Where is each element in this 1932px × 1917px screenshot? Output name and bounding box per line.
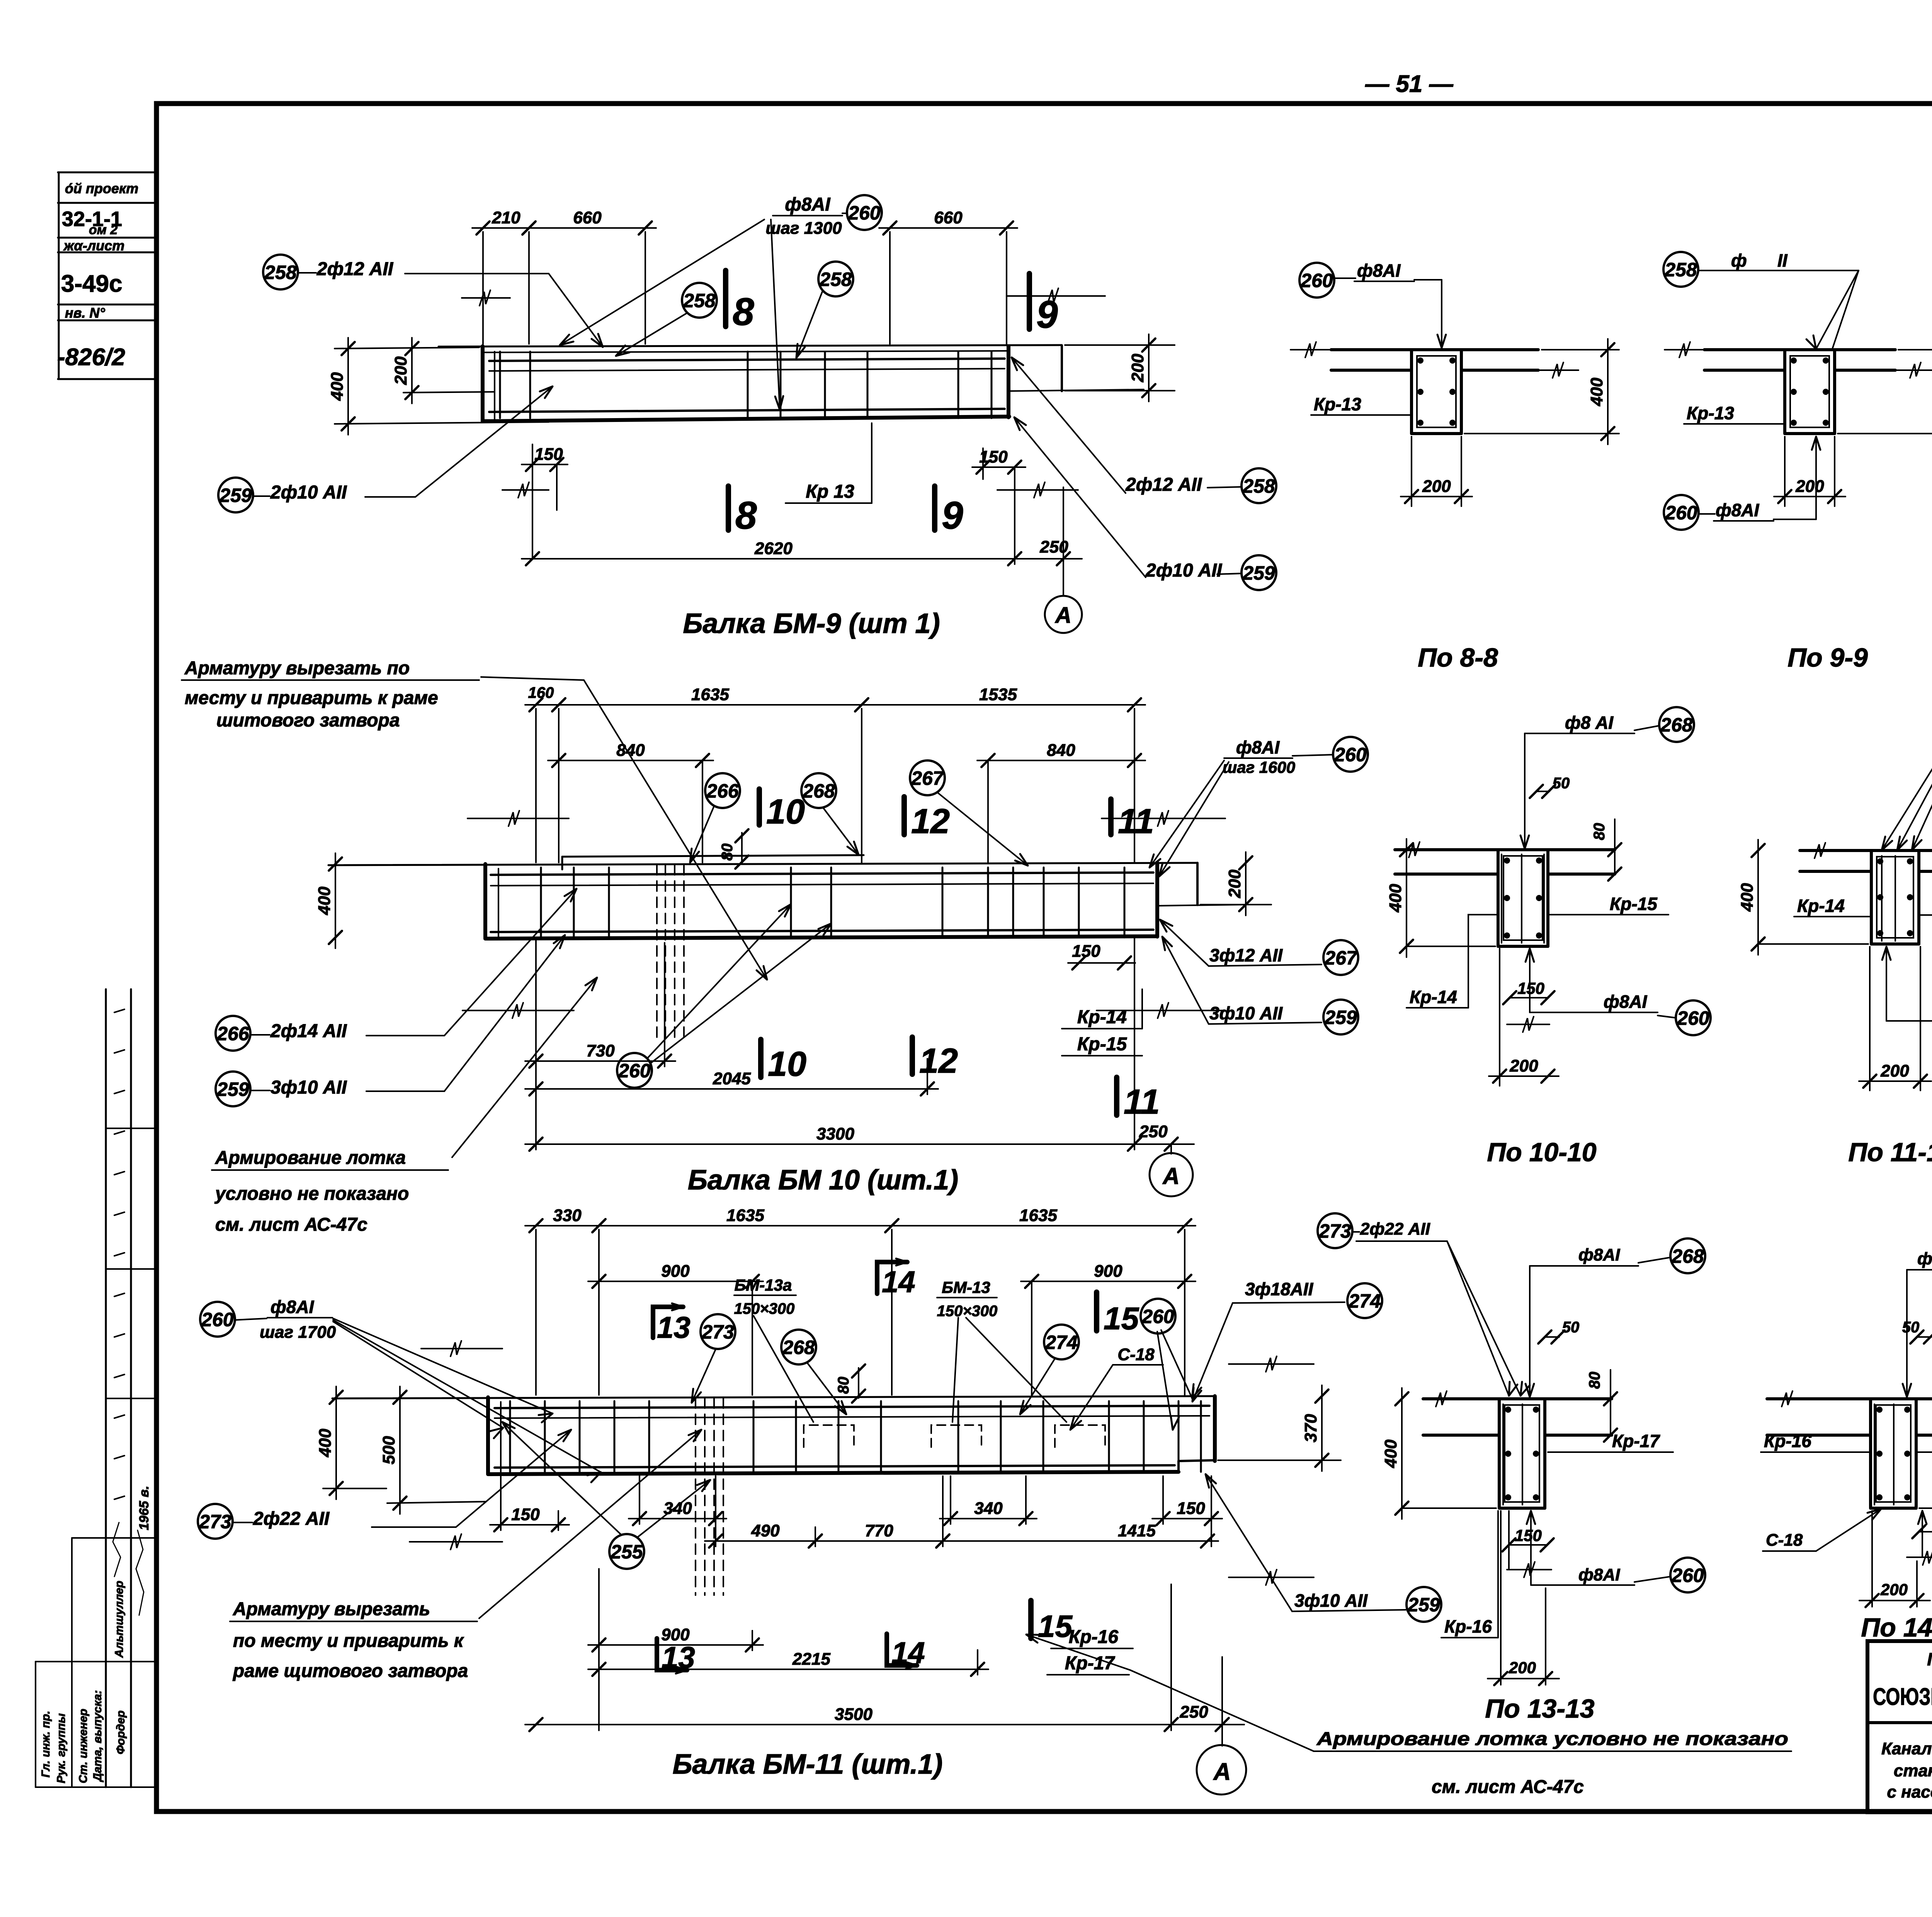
beam BM-10 circle 260 mid — [617, 904, 831, 1088]
beam BM-10 circle 267 — [910, 760, 1028, 866]
svg-text:660: 660 — [934, 208, 963, 227]
svg-text:ф8АI: ф8АI — [1578, 1565, 1620, 1584]
svg-text:274: 274 — [1045, 1332, 1077, 1353]
svg-text:259: 259 — [1242, 562, 1275, 584]
svg-text:А: А — [1054, 603, 1071, 628]
beam BM-10 note armirovanie lotka — [212, 978, 597, 1235]
beam BM-10 label 2f14 AII (266) left — [216, 889, 577, 1051]
beam BM-11 circle 268 — [781, 1330, 846, 1414]
svg-text:268: 268 — [1660, 714, 1693, 736]
section Po 10-10 dim 50 — [1530, 775, 1570, 798]
svg-text:210: 210 — [492, 208, 520, 227]
beam BM-9 section mark 9 bottom — [935, 486, 963, 537]
beam BM-10 section mark 10 bottom — [761, 1039, 806, 1084]
beam BM-9 label 2f10 AII (259) right — [1014, 417, 1276, 590]
svg-text:3300: 3300 — [816, 1124, 854, 1143]
section Po 8-8 label Kr-13 — [1311, 394, 1410, 415]
svg-text:200: 200 — [1225, 869, 1244, 898]
svg-text:400: 400 — [1587, 378, 1606, 407]
title block org names — [1873, 1649, 1932, 1724]
svg-text:Ст. инженер: Ст. инженер — [77, 1709, 90, 1783]
svg-text:200: 200 — [1128, 354, 1147, 383]
section Po 10-10 dim 200 — [1489, 949, 1559, 1086]
svg-text:Армирование лотка: Армирование лотка — [215, 1148, 406, 1168]
beam BM-10 label 3f10 AII (259) — [1162, 937, 1358, 1034]
svg-text:50: 50 — [1553, 775, 1570, 792]
svg-text:200: 200 — [1795, 477, 1824, 496]
svg-text:200: 200 — [1880, 1580, 1908, 1599]
section Po 14-14 label Kr-17 — [1916, 1431, 1932, 1452]
section Po 11-11 label Kr-14 — [1794, 896, 1871, 917]
svg-text:274: 274 — [1348, 1290, 1381, 1312]
beam BM-10 section mark 11 top — [1111, 799, 1154, 841]
svg-text:А: А — [1162, 1163, 1179, 1189]
section Po 11-11 body — [1800, 843, 1932, 944]
svg-text:11: 11 — [1124, 1083, 1160, 1121]
svg-text:2ф22 АII: 2ф22 АII — [1360, 1220, 1430, 1238]
section Po 13-13 dim 400 — [1381, 1388, 1496, 1519]
beam BM-10 dim 150 — [1068, 942, 1135, 970]
svg-text:По 9-9: По 9-9 — [1787, 643, 1868, 672]
svg-text:-826/2: -826/2 — [57, 344, 125, 371]
svg-text:400: 400 — [1381, 1439, 1400, 1468]
svg-text:370: 370 — [1301, 1414, 1320, 1442]
svg-text:ф8 АI: ф8 АI — [1565, 713, 1614, 733]
beam BM-9 top dimensions 210 660 660 — [472, 208, 1017, 344]
beam BM-11 label 2f22 AII (273) left — [198, 1430, 571, 1539]
beam BM-11 axis A circle — [1197, 1745, 1246, 1795]
section Po 14-14 label Kr-16 — [1761, 1431, 1871, 1452]
svg-text:400: 400 — [1386, 884, 1405, 913]
svg-text:900: 900 — [661, 1262, 690, 1281]
svg-text:ф8АI: ф8АI — [270, 1297, 315, 1317]
section Po 13-13 title — [1485, 1694, 1594, 1723]
svg-text:268: 268 — [802, 780, 835, 802]
svg-text:150: 150 — [1072, 942, 1100, 961]
svg-text:13: 13 — [657, 1310, 690, 1344]
svg-text:259: 259 — [219, 485, 252, 506]
svg-text:с насосами 2½НФ или 4НФ: с насосами 2½НФ или 4НФ — [1887, 1783, 1932, 1801]
svg-text:о́й проект: о́й проект — [65, 180, 138, 196]
svg-text:БМ-13а: БМ-13а — [735, 1276, 792, 1294]
beam BM-10 label Kr-14 Kr-15 — [1062, 989, 1142, 1056]
page number -51- — [1365, 71, 1453, 97]
beam BM-11 section mark 14 bottom — [887, 1634, 925, 1670]
beam BM-11 mid dims 150 340 490 770 340 1415 150 — [490, 1476, 1222, 1548]
svg-text:150: 150 — [1515, 1526, 1542, 1544]
beam BM-11 circle 273 — [692, 1314, 735, 1403]
svg-text:Кр-15: Кр-15 — [1610, 894, 1658, 914]
svg-text:660: 660 — [573, 208, 602, 227]
section Po 13-13 dim 200 — [1488, 1511, 1559, 1685]
beam BM-11 label Kr-16 Kr-17 — [1047, 1627, 1133, 1675]
svg-text:340: 340 — [974, 1499, 1003, 1518]
svg-text:1965 в.: 1965 в. — [137, 1486, 151, 1530]
title block grid — [1867, 1641, 1932, 1812]
svg-text:260: 260 — [1677, 1007, 1709, 1029]
svg-text:По 10-10: По 10-10 — [1487, 1138, 1596, 1167]
beam BM-11 section mark 15 bottom — [1031, 1601, 1073, 1643]
beam BM-11 section mark 15 top — [1097, 1292, 1139, 1336]
beam BM-11 label 3f18AII (274) — [1192, 1279, 1382, 1402]
svg-text:С-18: С-18 — [1766, 1531, 1803, 1550]
beam BM-10 circle 268 — [801, 773, 859, 855]
svg-text:10: 10 — [768, 1045, 806, 1084]
svg-text:150×300: 150×300 — [937, 1303, 998, 1320]
beam BM-10 stirrups — [541, 867, 1124, 937]
beam BM-11 label BM-13 — [937, 1278, 1066, 1422]
svg-text:2ф10 АII: 2ф10 АII — [1145, 560, 1223, 581]
svg-text:80: 80 — [835, 1377, 852, 1394]
svg-text:2045: 2045 — [713, 1069, 751, 1088]
svg-text:ф8АI: ф8АI — [1917, 1249, 1932, 1268]
beam BM-11 top dimensions — [525, 1206, 1196, 1395]
svg-text:А: А — [1213, 1759, 1231, 1785]
svg-text:900: 900 — [1094, 1262, 1122, 1281]
svg-text:Дата, выпуска:: Дата, выпуска: — [91, 1690, 104, 1783]
svg-text:267: 267 — [911, 767, 944, 789]
beam BM-9 section mark 9 top — [1029, 274, 1058, 336]
svg-text:840: 840 — [1047, 741, 1075, 760]
svg-text:ф8АI: ф8АI — [1357, 260, 1401, 281]
section Po 13-13 dim 50 — [1538, 1319, 1579, 1344]
section Po 14-14 label f8AI (268) — [1903, 1241, 1932, 1397]
beam BM-11 label S-18 — [1070, 1345, 1163, 1430]
svg-text:15: 15 — [1038, 1609, 1073, 1643]
svg-text:730: 730 — [586, 1041, 615, 1060]
svg-text:По 14-14: По 14-14 — [1861, 1613, 1932, 1642]
svg-text:Балка БМ-9 (шт 1): Балка БМ-9 (шт 1) — [683, 608, 940, 639]
beam BM-10 section mark 12 top — [904, 797, 950, 841]
beam BM-11 section mark 13 bottom — [657, 1638, 695, 1674]
section Po 10-10 dim 80 — [1591, 819, 1621, 881]
section Po 14-14 dim 200 — [1859, 1511, 1930, 1607]
svg-text:3ф18АII: 3ф18АII — [1245, 1279, 1313, 1299]
beam BM-11 dashed cutout — [696, 1398, 723, 1595]
svg-text:Фордер: Фордер — [114, 1710, 127, 1754]
svg-text:1535: 1535 — [979, 685, 1017, 704]
beam BM-10 bottom dims 730 2045 3300 250 — [525, 937, 1194, 1154]
section Po 11-11 label Kr-15 — [1919, 894, 1932, 915]
section Po 10-10 body — [1395, 842, 1615, 946]
svg-text:273: 273 — [199, 1511, 231, 1533]
svg-text:см. лист АС-47с: см. лист АС-47с — [215, 1214, 367, 1235]
svg-text:260: 260 — [1300, 270, 1333, 291]
section Po 11-11 dim 400 — [1738, 840, 1868, 955]
svg-text:Кр-16: Кр-16 — [1764, 1431, 1811, 1451]
beam BM-11 circle 274 — [1020, 1325, 1079, 1414]
svg-text:3500: 3500 — [835, 1705, 872, 1724]
beam BM-11 label f8AI step 1700 (260) left — [200, 1297, 601, 1482]
beam BM-10 circle 266 — [690, 773, 740, 862]
svg-text:Балка БМ 10 (шт.1): Балка БМ 10 (шт.1) — [688, 1165, 958, 1196]
beam BM-9 label Kr 13 — [786, 423, 872, 503]
svg-text:месту и приварить к раме: месту и приварить к раме — [185, 688, 438, 708]
svg-text:400: 400 — [316, 1429, 335, 1458]
svg-text:260: 260 — [201, 1309, 234, 1330]
beam BM-9 stirrups — [500, 352, 992, 418]
svg-text:260: 260 — [1334, 744, 1367, 765]
svg-text:1635: 1635 — [691, 685, 729, 704]
svg-text:200: 200 — [1880, 1061, 1909, 1080]
svg-text:1415: 1415 — [1118, 1521, 1156, 1540]
svg-text:2ф12 АII: 2ф12 АII — [316, 259, 394, 279]
beam BM-9 label 2f12 AII (258) right — [1012, 357, 1276, 503]
svg-text:2ф22 АII: 2ф22 АII — [253, 1509, 330, 1529]
svg-text:260: 260 — [1671, 1565, 1704, 1586]
svg-text:770: 770 — [865, 1521, 893, 1540]
svg-text:150: 150 — [1177, 1499, 1205, 1518]
svg-text:258: 258 — [264, 262, 297, 283]
beam BM-10 right dim 200 — [1097, 811, 1271, 1018]
svg-text:14: 14 — [882, 1265, 915, 1299]
svg-text:9: 9 — [942, 494, 963, 537]
svg-text:1635: 1635 — [726, 1206, 764, 1225]
svg-text:260: 260 — [1141, 1306, 1174, 1327]
section Po 11-11 title — [1848, 1138, 1932, 1167]
section Po 13-13 label Kr-17 — [1548, 1431, 1673, 1452]
svg-text:— 51 —: — 51 — — [1365, 71, 1453, 97]
beam BM-11 title — [673, 1749, 943, 1780]
beam BM-10 section mark 11 bottom — [1117, 1077, 1160, 1121]
section Po 13-13 dim 150 — [1502, 1511, 1554, 1577]
beam BM-11 body — [332, 1396, 1215, 1474]
svg-text:268: 268 — [782, 1337, 815, 1358]
svg-text:Кр-16: Кр-16 — [1444, 1616, 1492, 1636]
beam BM-11 circle 255 — [502, 1422, 710, 1569]
section Po 8-8 label f8AI (260) — [1299, 260, 1446, 348]
beam BM-10 dim 80 — [719, 829, 748, 869]
beam BM-9 left dims 400 200 — [328, 290, 549, 435]
svg-text:400: 400 — [315, 886, 334, 915]
section Po 10-10 label Kr-15 — [1549, 894, 1668, 915]
svg-text:ом 2: ом 2 — [89, 223, 117, 237]
svg-text:200: 200 — [1509, 1056, 1538, 1075]
beam BM-11 section mark 14 top — [877, 1259, 915, 1299]
beam BM-11 stirrups — [510, 1401, 1201, 1472]
svg-text:шаг 1600: шаг 1600 — [1223, 758, 1295, 776]
svg-text:По 13-13: По 13-13 — [1485, 1694, 1594, 1723]
svg-text:3ф12 АII: 3ф12 АII — [1209, 945, 1283, 965]
beam BM-10 axis A circle — [1150, 1153, 1193, 1196]
svg-text:15: 15 — [1104, 1301, 1139, 1336]
svg-text:по месту и приварить к: по месту и приварить к — [233, 1631, 464, 1651]
beam BM-10 body — [328, 855, 1246, 939]
svg-text:8: 8 — [733, 290, 754, 333]
section Po 14-14 label S-18 — [1763, 1509, 1881, 1551]
svg-text:см. лист АС-47с: см. лист АС-47с — [1432, 1777, 1584, 1797]
beam BM-11 dim 3500 250 — [525, 1584, 1244, 1746]
svg-text:ф8АI: ф8АI — [1236, 737, 1280, 757]
beam BM-10 section mark 12 bottom — [912, 1037, 958, 1080]
beam BM-9 circle 258 left-mid — [796, 262, 853, 358]
beam BM-11 label 3f10 AII (259) right — [1206, 1474, 1441, 1622]
beam BM-9 title — [683, 608, 940, 639]
svg-text:Кр-16: Кр-16 — [1069, 1627, 1119, 1647]
section Po 9-9 dim 400 — [1838, 339, 1932, 444]
svg-text:Арматуру вырезать по: Арматуру вырезать по — [184, 658, 410, 679]
svg-text:255: 255 — [610, 1541, 643, 1563]
svg-text:2ф12 АII: 2ф12 АII — [1125, 475, 1202, 495]
svg-text:12: 12 — [919, 1042, 958, 1080]
section Po 10-10 title — [1487, 1138, 1596, 1167]
svg-text:шаг 1700: шаг 1700 — [260, 1323, 336, 1342]
svg-text:Кр-13: Кр-13 — [1314, 394, 1361, 414]
svg-text:150: 150 — [1517, 979, 1544, 997]
svg-text:260: 260 — [1665, 502, 1697, 524]
svg-text:80: 80 — [719, 844, 736, 861]
section Po 14-14 dim 50 — [1902, 1319, 1932, 1344]
section Po 9-9 dim 200 — [1774, 437, 1845, 506]
section Po 8-8 dim 400 — [1464, 339, 1619, 444]
svg-text:50: 50 — [1902, 1319, 1920, 1336]
svg-text:Кр 13: Кр 13 — [806, 481, 854, 502]
svg-text:II: II — [1777, 250, 1788, 270]
svg-text:266: 266 — [216, 1023, 250, 1044]
svg-text:3ф10 АII: 3ф10 АII — [1294, 1590, 1368, 1611]
beam BM-9 label 2f10 AII (259) left — [218, 386, 553, 512]
beam BM-11 section mark 13 top — [653, 1303, 690, 1344]
section Po 14-14 body — [1767, 1391, 1932, 1508]
beam BM-11 right dim 370 — [1218, 1356, 1341, 1585]
beam BM-11 left dims 400 500 — [316, 1341, 502, 1550]
svg-text:150: 150 — [511, 1505, 540, 1524]
section Po 10-10 label Kr-14 — [1406, 915, 1496, 1008]
section Po 13-13 label f8AI (260) — [1527, 1511, 1705, 1592]
section Po 13-13 dim 80 — [1586, 1370, 1617, 1442]
svg-text:ф8АI: ф8АI — [1578, 1245, 1620, 1264]
beam BM-10 label 3f10 AII (259) left — [216, 935, 565, 1106]
svg-text:250: 250 — [1139, 1122, 1168, 1141]
section Po 10-10 label f8AI (260) — [1526, 949, 1711, 1035]
section Po 8-8 dim 200 — [1401, 437, 1472, 506]
bottom-left signature stamp — [36, 989, 156, 1787]
beam BM-10 section mark 10 top — [759, 789, 805, 831]
svg-text:258: 258 — [683, 290, 716, 311]
svg-text:ф8АI: ф8АI — [1604, 992, 1648, 1012]
svg-text:260: 260 — [618, 1060, 651, 1082]
svg-text:Кр-14: Кр-14 — [1797, 896, 1845, 916]
section Po 14-14 label f8AI (260) — [1918, 1511, 1932, 1565]
svg-text:БМ-13: БМ-13 — [942, 1278, 990, 1296]
svg-text:3ф10 АII: 3ф10 АII — [1209, 1003, 1283, 1023]
section Po 9-9 label Kr-13 — [1684, 403, 1785, 424]
svg-text:По 11-11: По 11-11 — [1848, 1138, 1932, 1167]
section Po 10-10 label f8AI (268) — [1520, 707, 1694, 849]
svg-text:Балка БМ-11 (шт.1): Балка БМ-11 (шт.1) — [673, 1749, 943, 1780]
svg-text:2ф10 АII: 2ф10 АII — [270, 482, 347, 503]
svg-text:Кр-14: Кр-14 — [1077, 1007, 1127, 1027]
beam BM-9 label 2f12 AII (258) left — [263, 255, 603, 347]
svg-text:258: 258 — [1664, 259, 1697, 281]
section Po 14-14 title — [1861, 1613, 1932, 1642]
beam BM-10 label 3f12 AII (267) — [1160, 920, 1358, 975]
svg-text:3-49с: 3-49с — [61, 270, 122, 297]
beam BM-10 title — [688, 1165, 958, 1196]
svg-text:500: 500 — [379, 1436, 398, 1465]
beam BM-10 dashed cutout — [657, 865, 684, 1043]
svg-text:273: 273 — [701, 1321, 734, 1343]
svg-text:258: 258 — [819, 269, 852, 290]
section Po 13-13 label Kr-16 — [1441, 1511, 1498, 1638]
svg-text:3ф10 АII: 3ф10 АII — [270, 1077, 347, 1098]
beam BM-11 circle 260 right — [1141, 1299, 1201, 1430]
svg-text:250: 250 — [1179, 1703, 1208, 1721]
section Po 9-9 title — [1787, 643, 1868, 672]
svg-text:268: 268 — [1671, 1245, 1704, 1267]
svg-text:12: 12 — [911, 802, 950, 841]
section Po 9-9 body — [1665, 342, 1932, 434]
svg-text:259: 259 — [216, 1078, 249, 1100]
svg-text:Арматуру вырезать: Арматуру вырезать — [233, 1599, 430, 1619]
svg-text:150×300: 150×300 — [734, 1300, 795, 1317]
top-left stamp boxes — [57, 172, 156, 379]
svg-text:Госстрой СССР: Госстрой СССР — [1927, 1649, 1932, 1669]
svg-text:490: 490 — [751, 1521, 780, 1540]
section Po 10-10 dim 400 — [1386, 839, 1495, 957]
beam BM-9 axis A circle — [1045, 596, 1082, 633]
svg-text:259: 259 — [1407, 1594, 1440, 1616]
beam BM-9 circle 258 center — [616, 283, 717, 356]
svg-text:ф: ф — [1731, 250, 1747, 270]
svg-text:Рук. группы: Рук. группы — [55, 1713, 68, 1783]
beam BM-11 label BM-13a — [734, 1276, 813, 1422]
svg-text:2ф14 АII: 2ф14 АII — [270, 1021, 347, 1041]
svg-text:50: 50 — [1562, 1319, 1580, 1336]
beam BM-9 section mark 8 bottom — [728, 486, 757, 537]
svg-text:шитового затвора: шитового затвора — [216, 710, 400, 731]
beam BM-11 dims 900 2215 — [588, 1569, 988, 1730]
svg-text:266: 266 — [706, 780, 739, 802]
svg-text:340: 340 — [663, 1499, 692, 1518]
section Po 14-14 dim 400 — [1919, 1388, 1932, 1519]
beam BM-9 section mark 8 top — [726, 270, 754, 333]
beam BM-9 dim 150 left — [502, 444, 568, 559]
section Po 11-11 label f8AI (260) — [1882, 947, 1932, 1033]
svg-text:станция на 2 агрегата: станция на 2 агрегата — [1894, 1761, 1932, 1780]
svg-text:14: 14 — [891, 1636, 925, 1670]
svg-text:Альтшуллер: Альтшуллер — [113, 1581, 126, 1658]
svg-text:Кр-14: Кр-14 — [1410, 987, 1457, 1007]
beam BM-9 body — [439, 345, 1144, 421]
section Po 9-9 label (258) — [1663, 250, 1859, 349]
svg-text:жα-лист: жα-лист — [63, 238, 124, 253]
svg-text:150: 150 — [534, 445, 563, 464]
section Po 8-8 body — [1291, 342, 1578, 434]
beam BM-11 note armirovanie lotka bottom — [1026, 1635, 1791, 1797]
beam BM-10 label f8AI step 1600 (260) — [1150, 737, 1368, 876]
svg-text:200: 200 — [1422, 477, 1451, 496]
svg-text:10: 10 — [766, 793, 805, 831]
svg-text:раме щитового затвора: раме щитового затвора — [232, 1661, 468, 1681]
beam BM-10 top dimensions — [525, 684, 1145, 862]
svg-text:шаг 1300: шаг 1300 — [765, 219, 842, 238]
svg-text:Кр-15: Кр-15 — [1077, 1034, 1128, 1055]
beam BM-11 note armaturu vyrezat — [230, 1430, 701, 1681]
svg-text:259: 259 — [1324, 1007, 1357, 1028]
svg-text:По 8-8: По 8-8 — [1418, 643, 1498, 672]
svg-text:200: 200 — [1509, 1658, 1536, 1677]
section Po 11-11 dim 200 — [1859, 947, 1931, 1090]
svg-text:ф8АI: ф8АI — [1716, 500, 1760, 520]
svg-text:267: 267 — [1324, 947, 1358, 969]
beam BM-10 note armaturu vyrezat — [182, 658, 767, 980]
svg-text:2620: 2620 — [754, 539, 793, 558]
svg-text:Кр-17: Кр-17 — [1612, 1431, 1660, 1451]
section Po 13-13 body — [1423, 1391, 1612, 1508]
svg-text:Канализационная насосная: Канализационная насосная — [1881, 1739, 1932, 1758]
svg-text:258: 258 — [1242, 475, 1275, 497]
